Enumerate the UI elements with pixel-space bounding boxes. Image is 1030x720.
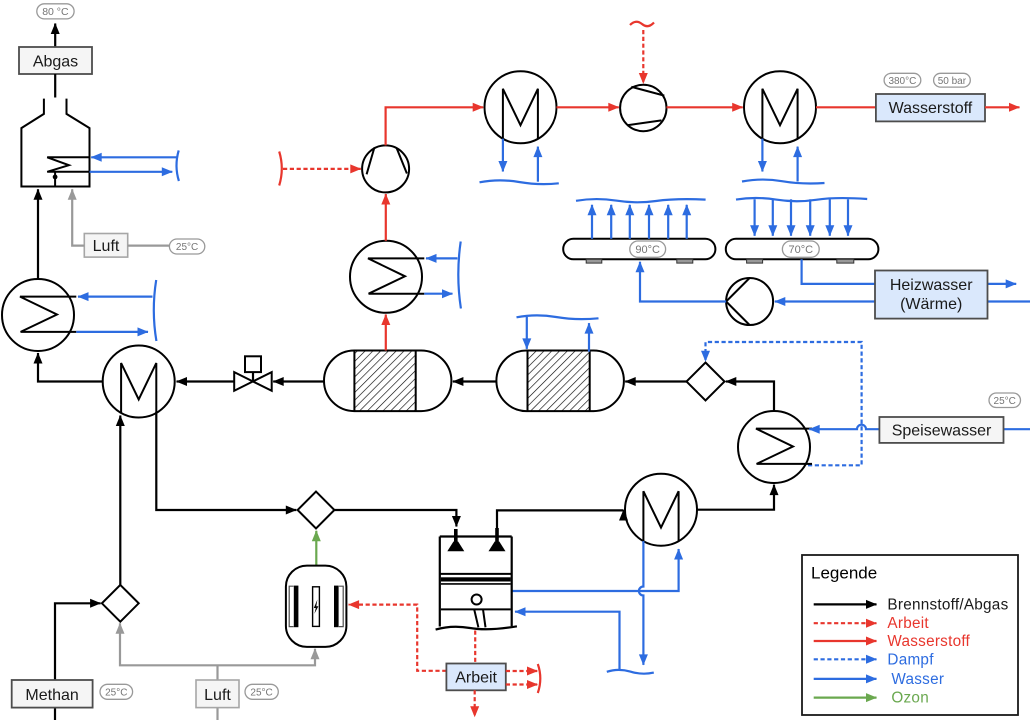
oval 70C xyxy=(782,241,819,257)
wavy above radiator 1 xyxy=(576,199,706,202)
heat sink bracket at exchanger G xyxy=(458,242,461,309)
ozonizer right electrode xyxy=(339,586,343,628)
engine head gasket line xyxy=(440,573,512,575)
wire pond to engine coolant in xyxy=(515,612,620,671)
box Arbeit xyxy=(446,664,505,691)
heat exchanger B M-tube xyxy=(121,363,156,413)
pump vanes xyxy=(726,278,750,325)
wire Methan to diamond J3 xyxy=(55,603,101,680)
radiator 2 feet xyxy=(747,259,763,263)
legend Ozon xyxy=(814,696,877,698)
svg-text:Luft: Luft xyxy=(93,238,120,255)
wire diamond J1 to reactor R2 xyxy=(625,380,686,382)
wire ozonizer to diamond J2 xyxy=(315,531,317,566)
reactor R1 vessel xyxy=(324,351,451,412)
oval 25C upper Luft xyxy=(169,239,204,254)
oval 90C xyxy=(630,241,666,257)
pond wavy line xyxy=(607,670,654,674)
heat exchanger G circle xyxy=(350,241,422,313)
ozonizer left electrode xyxy=(289,586,293,628)
heat exchanger A circle xyxy=(2,279,74,351)
wire Abgas box to furnace xyxy=(54,74,56,98)
svg-text:Abgas: Abgas xyxy=(33,54,78,71)
ozonizer discharge tube xyxy=(313,587,320,627)
wire exchanger F coolant drain xyxy=(761,139,763,172)
engine cylinder walls xyxy=(440,537,512,627)
ozonizer spark xyxy=(314,600,319,614)
heat exchanger E M-tube xyxy=(503,89,538,139)
oval 25C Methan xyxy=(100,684,133,699)
box Speisewasser xyxy=(879,417,1003,443)
svg-text:Wasser: Wasser xyxy=(891,671,944,688)
heat exchanger B circle xyxy=(103,346,175,418)
heat exchanger E circle xyxy=(485,71,557,143)
engine connecting rod xyxy=(474,609,485,627)
radiator 1 body xyxy=(563,239,715,259)
wire Luft to furnace xyxy=(72,189,84,245)
wire Luft to 25C oval xyxy=(128,245,170,247)
diamond J1 xyxy=(687,363,725,401)
wire compressor V2 to exchanger F xyxy=(667,106,743,108)
wire work to compressor V1 xyxy=(283,168,361,170)
wire reactor R1 to exchanger G xyxy=(385,315,387,351)
svg-text:Heizwasser: Heizwasser xyxy=(890,277,973,294)
oval 25C Speisewasser xyxy=(989,393,1021,408)
wire Heizwasser return to pump xyxy=(775,300,1030,302)
wire water into furnace coil xyxy=(91,156,177,158)
svg-text:25°C: 25°C xyxy=(105,688,127,699)
furnace vessel xyxy=(21,99,89,187)
wire pump to radiator 1 xyxy=(640,262,726,302)
wire compressor V1 to exchanger E xyxy=(386,107,484,145)
wire water into exchanger A xyxy=(78,296,153,298)
svg-text:25°C: 25°C xyxy=(176,242,198,253)
steam source wavy above reactor R2 xyxy=(517,315,599,319)
oval 80 C xyxy=(37,4,74,19)
wire diamond J3 to exchanger B xyxy=(119,416,121,585)
box Luft lower xyxy=(196,680,239,708)
work source bracket at V1 xyxy=(279,152,282,186)
svg-text:50 bar: 50 bar xyxy=(938,76,967,87)
wire exchanger D to exchanger C xyxy=(697,485,774,510)
wire exchanger C to diamond J1 xyxy=(726,382,774,412)
wire exchanger B to diamond J2 xyxy=(156,412,296,510)
legend Dampf xyxy=(814,658,877,660)
svg-text:Brennstoff/Abgas: Brennstoff/Abgas xyxy=(887,596,1008,613)
wire reactor R2 to reactor R1 xyxy=(453,380,497,382)
wire Luft manifold xyxy=(216,665,218,680)
wire Arbeit output lower xyxy=(506,683,538,685)
box Methan xyxy=(12,680,93,708)
radiator 2 body xyxy=(726,239,879,259)
wire engine exhaust to exchanger D xyxy=(497,510,624,528)
heat exchanger D circle xyxy=(625,474,697,546)
svg-text:70°C: 70°C xyxy=(789,244,814,256)
box Abgas xyxy=(19,47,92,74)
wire water out of exchanger A xyxy=(76,331,148,333)
wavy above radiator 2 xyxy=(736,198,867,201)
legend Wasser xyxy=(814,678,877,680)
valve actuator xyxy=(245,356,261,372)
svg-text:25°C: 25°C xyxy=(250,688,272,699)
compressor V1 vanes xyxy=(367,148,407,175)
heat exchanger F M-tube xyxy=(762,89,797,139)
reactor R1 catalyst bed xyxy=(354,351,415,412)
wire Arbeit to ozonizer xyxy=(349,605,447,671)
engine crankcase wavy xyxy=(436,626,517,629)
wire reactor R1 to valve xyxy=(273,380,324,382)
wire exhaust riser exchanger A to furnace xyxy=(37,189,39,279)
svg-text:25°C: 25°C xyxy=(994,396,1016,407)
compressor V2 circle xyxy=(620,85,666,131)
diamond J2 xyxy=(298,492,335,529)
heat exchanger G coil xyxy=(368,258,424,293)
wavy water under exchanger F xyxy=(742,180,825,184)
svg-text:Arbeit: Arbeit xyxy=(887,615,929,632)
engine intake valve xyxy=(454,529,458,544)
svg-text:Speisewasser: Speisewasser xyxy=(892,423,992,440)
box Luft upper xyxy=(84,234,127,258)
wire diamond J2 to engine intake xyxy=(334,510,456,527)
ozonizer vessel xyxy=(286,566,347,647)
compressor V1 circle xyxy=(362,145,409,192)
legend Brennstoff/Abgas xyxy=(814,603,877,605)
wire Luft to diamond J3 xyxy=(120,623,218,665)
pump circle xyxy=(726,278,773,325)
wire Arbeit output upper xyxy=(506,670,538,672)
furnace coil drain stub xyxy=(54,172,56,187)
wire water into exchanger G xyxy=(426,257,458,259)
svg-text:(Wärme): (Wärme) xyxy=(900,296,962,313)
wire steam up from reactor R2 xyxy=(588,323,590,352)
heat exchanger A coil xyxy=(20,297,76,332)
radiator 1 feet xyxy=(586,259,602,263)
svg-text:Arbeit: Arbeit xyxy=(455,670,497,687)
compressor V2 vanes xyxy=(627,87,664,125)
wire engine work to Arbeit xyxy=(474,631,476,664)
wire Speisewasser feed into exchanger C xyxy=(809,425,1030,429)
wire Arbeit output down xyxy=(474,690,476,717)
wire exchanger E to compressor V2 xyxy=(557,106,619,108)
work sink bracket xyxy=(538,664,541,693)
radiator 2 heat arrows xyxy=(753,199,755,236)
reactor R2 catalyst bed xyxy=(528,351,590,412)
heat exchanger F circle xyxy=(744,71,816,143)
wire Wasserstoff output xyxy=(985,106,1020,108)
oval 380C xyxy=(884,73,921,87)
reactor R2 vessel xyxy=(496,351,624,412)
legend Wasserstoff xyxy=(814,640,877,642)
svg-text:Dampf: Dampf xyxy=(887,651,934,668)
wire coolant into exchanger F xyxy=(796,147,798,182)
engine piston rings xyxy=(441,577,511,581)
wire Methan below box xyxy=(54,708,56,720)
box Heizwasser xyxy=(875,271,988,319)
heat exchanger C coil xyxy=(756,429,812,464)
heat sink bracket at furnace xyxy=(176,150,178,181)
svg-text:80 °C: 80 °C xyxy=(42,6,69,18)
wavy water under exchanger E xyxy=(480,180,559,184)
svg-text:90°C: 90°C xyxy=(635,244,660,256)
wire coolant into exchanger E xyxy=(537,147,539,182)
wire exchanger F to Wasserstoff xyxy=(816,106,876,108)
radiator 1 heat arrows xyxy=(591,205,593,239)
wire exchanger D drain to pond xyxy=(639,541,644,665)
wire radiator 2 to Heizwasser out xyxy=(802,259,1017,284)
svg-text:Legende: Legende xyxy=(811,563,877,582)
wire engine coolant out to exchanger D xyxy=(512,549,679,591)
engine exhaust valve xyxy=(495,528,499,544)
work source squiggle above V2 xyxy=(630,22,654,26)
furnace coil xyxy=(47,157,89,172)
wire exchanger G to compressor V1 xyxy=(385,194,387,241)
engine piston bottom xyxy=(441,608,511,610)
wire exchanger B to exchanger A xyxy=(38,353,103,382)
wire Luft below box xyxy=(216,708,218,720)
heat sink bracket at exchanger A xyxy=(154,280,157,341)
wire work to compressor V2 xyxy=(642,30,644,84)
box Wasserstoff xyxy=(876,94,985,121)
wire water out of exchanger G xyxy=(424,293,452,295)
legend box xyxy=(802,555,1018,715)
svg-text:Ozon: Ozon xyxy=(891,690,929,707)
wire steam down into reactor R2 xyxy=(526,317,528,349)
svg-text:Wasserstoff: Wasserstoff xyxy=(887,633,970,650)
wire exchanger E coolant drain xyxy=(502,139,504,172)
diamond J3 xyxy=(102,585,139,622)
svg-text:380°C: 380°C xyxy=(888,76,916,87)
heat exchanger C circle xyxy=(738,411,810,483)
heat exchanger D M-tube xyxy=(643,491,678,541)
steam dashed loop exchanger C to diamond J1 xyxy=(706,342,862,465)
wire Abgas stack to 80C xyxy=(54,24,56,48)
svg-text:Methan: Methan xyxy=(25,687,78,704)
svg-text:Luft: Luft xyxy=(204,687,231,704)
oval 25C Luft lower xyxy=(245,684,278,699)
oval 50 bar xyxy=(934,73,971,87)
wire water out of furnace coil xyxy=(90,171,173,173)
wire Luft to ozonizer xyxy=(218,649,316,666)
valve body xyxy=(234,372,272,391)
engine wrist pin xyxy=(472,595,482,605)
svg-text:Wasserstoff: Wasserstoff xyxy=(889,100,973,117)
wire valve to exchanger B xyxy=(177,380,235,382)
legend Arbeit xyxy=(814,622,877,624)
